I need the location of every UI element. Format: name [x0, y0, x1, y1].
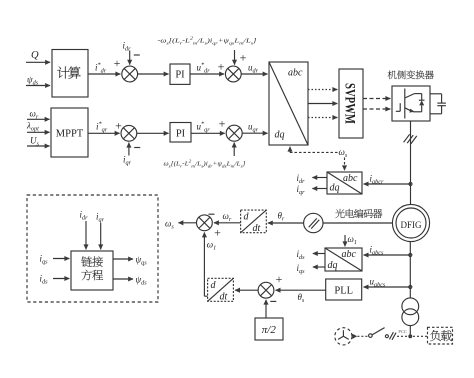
svg-text:iabcs: iabcs	[370, 245, 384, 257]
boundary dashed observer region	[27, 195, 158, 302]
wire formula1 into S2	[234, 50, 236, 65]
sign + at S1	[114, 56, 121, 70]
summing junction S3 slip calc	[197, 215, 213, 231]
svg-text:+: +	[218, 60, 225, 74]
svg-text:+: +	[115, 119, 122, 133]
node junction u_abcs	[409, 286, 412, 289]
wire i_qr out	[297, 184, 328, 196]
wire PI1 to S2	[190, 62, 224, 75]
svg-text:iqr: iqr	[297, 184, 306, 196]
wire PI2 to S2b	[191, 121, 225, 134]
svg-text:+: +	[240, 51, 247, 65]
svg-text:abc: abc	[342, 249, 357, 260]
svg-text:ωs[(Lr-L2m/Ls)idr+ψdsLm/Ls]: ωs[(Lr-L2m/Ls)idr+ψdsLm/Ls]	[164, 158, 247, 168]
svg-text:MPPT: MPPT	[56, 128, 84, 139]
wire i_abcs	[364, 245, 411, 257]
block MPPT	[51, 108, 88, 157]
svg-text:i*qr: i*qr	[96, 121, 108, 134]
block 负载 (load)	[428, 327, 453, 344]
svg-text:ids: ids	[297, 249, 306, 261]
svg-text:ω1: ω1	[207, 240, 216, 252]
node i_qr feedback	[123, 143, 140, 167]
wire uc dotted	[308, 117, 337, 119]
wire u_qr	[242, 122, 267, 134]
node Q input	[26, 50, 50, 63]
block abc to dq rotor currents	[327, 172, 362, 194]
svg-text:abc: abc	[343, 173, 358, 184]
label PCC	[398, 329, 407, 334]
wire theta_s from PLL	[276, 290, 326, 304]
component grid source	[335, 328, 352, 345]
svg-text:uqr: uqr	[248, 122, 259, 134]
wire S4 to d/dt	[235, 289, 258, 291]
block pi/2	[255, 318, 283, 340]
switch breaker	[369, 328, 389, 338]
block d/dt rotor angle	[241, 210, 267, 234]
svg-text:iqs: iqs	[297, 263, 306, 275]
label omega_s slip	[339, 147, 348, 159]
diode antiparallel	[419, 100, 425, 112]
wire PCC bus dashed	[397, 335, 427, 337]
wire omega_s out	[165, 219, 197, 231]
label measurement slashes	[389, 332, 396, 340]
svg-text:abc: abc	[288, 68, 303, 79]
block abc to dq stator currents	[325, 248, 362, 271]
wire i_qs out	[297, 263, 326, 275]
svg-text:ωs: ωs	[165, 219, 174, 231]
svg-text:ids: ids	[40, 274, 49, 286]
sign + at S3	[214, 226, 221, 240]
svg-text:ω1: ω1	[348, 234, 357, 246]
block PI controller PI2	[170, 123, 191, 143]
svg-text:+: +	[114, 56, 121, 70]
wire grid arrow	[352, 334, 357, 339]
wire ub solid	[308, 103, 337, 105]
block d/dt stator angle	[208, 278, 234, 302]
svg-text:udr: udr	[248, 63, 259, 75]
svg-text:+: +	[214, 226, 221, 240]
wire psi_ds out	[113, 275, 147, 287]
svg-text:dq: dq	[328, 260, 338, 271]
summing junction S4	[258, 282, 274, 298]
summing junction S2	[225, 66, 241, 82]
node i_qr to linkage	[96, 212, 105, 250]
svg-text:PI: PI	[175, 70, 185, 81]
label decoupling formula 1	[158, 36, 258, 46]
svg-text:ψqs: ψqs	[136, 255, 148, 267]
block 链接方程 (flux linkage equations)	[71, 251, 113, 290]
svg-text:ωr: ωr	[30, 109, 39, 121]
wire psi_qs out	[113, 255, 147, 267]
svg-text:+: +	[276, 272, 283, 286]
summing junction S2b	[226, 125, 242, 141]
svg-text:dq: dq	[275, 130, 285, 141]
wire encoder to DFIG	[323, 222, 392, 224]
svg-text:ωs: ωs	[339, 147, 348, 159]
wire pi/2 to S4	[265, 300, 267, 318]
wire S1 to PI1	[138, 73, 169, 75]
node junction i_abcr	[409, 183, 412, 186]
svg-text:dq: dq	[330, 183, 340, 194]
wire i_dr out	[297, 173, 328, 185]
svg-text:DFIG: DFIG	[400, 220, 422, 230]
svg-text:SVPWM: SVPWM	[342, 83, 358, 124]
node i_qs to linkage	[40, 254, 70, 266]
sign - at S3	[209, 213, 215, 215]
block 计算 (reactive power calc)	[52, 50, 88, 98]
svg-text:π/2: π/2	[262, 324, 277, 336]
svg-text:-ωs[(Lr-L2m/Ls)iqr+ψqsLm/Ls]: -ωs[(Lr-L2m/Ls)iqr+ψqsLm/Ls]	[158, 36, 258, 46]
transformer	[402, 298, 419, 336]
wire omega_s dashed to rotor abc-dq	[344, 158, 346, 171]
wire i*_dr	[88, 62, 120, 75]
label 机侧变换器 (machine-side converter)	[388, 70, 434, 79]
svg-text:dt: dt	[220, 291, 228, 302]
wire omega_1 up	[204, 233, 216, 297]
wire u_abcs	[364, 277, 411, 289]
wire gate signal 1 dashed	[363, 98, 390, 100]
block dq to abc transform	[269, 62, 308, 145]
wire rotor 3-phase	[410, 121, 412, 204]
block PI controller PI1	[170, 64, 190, 84]
block SVPWM	[339, 69, 363, 138]
wire formula2 into S2b	[233, 143, 235, 156]
summing junction S1b	[121, 125, 137, 141]
sign + left of S2b	[219, 117, 226, 131]
svg-text:d: d	[244, 212, 250, 223]
svg-text:ψds: ψds	[136, 275, 148, 287]
wire i*_qr	[88, 121, 120, 134]
sign + left of S2	[218, 60, 225, 74]
node i_dr to linkage	[80, 210, 89, 250]
wire omega_s dashed to dq-abc	[290, 147, 338, 153]
svg-text:iqs: iqs	[40, 254, 49, 266]
svg-text:PCC: PCC	[398, 329, 407, 334]
node omega_1 input	[345, 234, 357, 247]
svg-text:PI: PI	[176, 129, 186, 140]
wire u_dr	[241, 63, 267, 75]
svg-text:i*dr: i*dr	[95, 62, 107, 75]
wire grid to switch dashed	[357, 335, 368, 337]
svg-text:u*dr: u*dr	[197, 62, 211, 75]
svg-text:iqr: iqr	[123, 155, 132, 167]
svg-text:idr: idr	[80, 210, 89, 222]
svg-text:PLL: PLL	[334, 286, 353, 297]
summing junction S1	[122, 66, 138, 82]
label decoupling formula 2	[164, 158, 247, 168]
wire S1b to PI2	[137, 132, 169, 134]
wire gate signal 2 dashed	[363, 108, 390, 110]
node junction PCC	[409, 335, 412, 338]
node i_dr feedback	[123, 41, 140, 65]
transistor IGBT	[396, 89, 422, 119]
wire omega_r to S3	[214, 211, 241, 223]
svg-text:d: d	[211, 280, 217, 291]
svg-text:ψds: ψds	[27, 75, 39, 87]
svg-text:Q: Q	[31, 50, 39, 61]
wire theta_r	[268, 211, 304, 224]
block converter box	[392, 86, 430, 121]
svg-text:λopt: λopt	[26, 121, 39, 133]
wire stator	[409, 242, 411, 298]
svg-text:iabcr: iabcr	[370, 174, 384, 186]
svg-text:+: +	[219, 117, 226, 131]
label 光电编码器 (photoelectric encoder)	[335, 209, 382, 218]
node omega_r input	[27, 109, 50, 121]
node lambda_opt input	[26, 121, 50, 133]
capacitor DC link	[430, 94, 446, 114]
node i_ds to linkage	[40, 274, 70, 286]
generator DFIG	[392, 204, 429, 241]
sign + at S4	[276, 272, 283, 286]
component encoder	[304, 213, 323, 232]
sign + at S1b	[115, 119, 122, 133]
block PLL	[326, 279, 362, 300]
wire ua dotted	[308, 89, 337, 91]
svg-text:u*qr: u*qr	[197, 121, 211, 134]
node psi_ds input	[26, 75, 50, 87]
sign + top of S2	[240, 51, 247, 65]
label 3-phase slashes rotor	[404, 134, 417, 144]
svg-text:θs: θs	[298, 292, 305, 304]
node junction i_abcs	[409, 254, 412, 257]
svg-text:θr: θr	[278, 211, 285, 223]
wire i_ds out	[297, 249, 326, 261]
sign - at S4	[270, 300, 276, 302]
svg-text:dt: dt	[253, 223, 261, 234]
svg-text:ωr: ωr	[223, 211, 232, 223]
node U_s input	[27, 136, 50, 148]
svg-text:iqr: iqr	[96, 212, 105, 224]
wire i_abcr	[364, 174, 411, 186]
